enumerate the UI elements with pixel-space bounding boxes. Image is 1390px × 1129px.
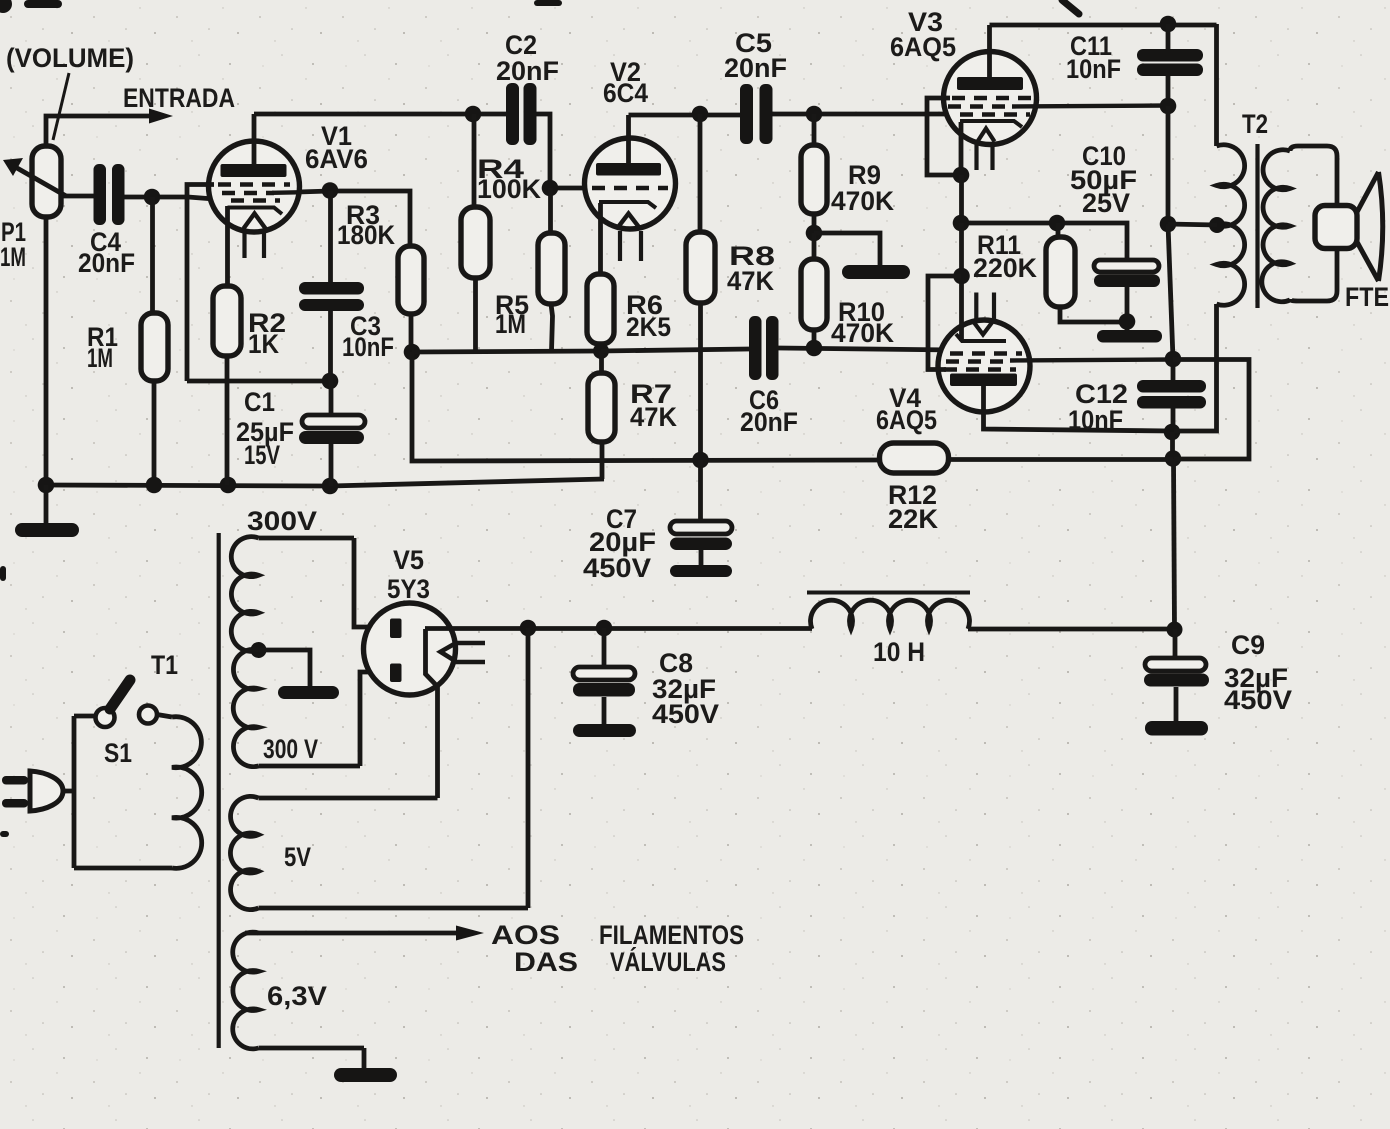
svg-text:V5: V5: [393, 545, 424, 575]
node V3 cathode junction: [953, 167, 970, 184]
resistor R3: [398, 246, 424, 352]
wire bias rail y=352: [412, 351, 601, 352]
wire C4 to V1 grid: [125, 197, 228, 200]
resistor R5: [538, 188, 565, 351]
resistor R1: [141, 197, 168, 485]
svg-text:450V: 450V: [652, 699, 719, 729]
node V4 cathode junction: [953, 268, 970, 285]
arrowhead ENTRADA: [149, 109, 173, 124]
svg-text:C9: C9: [1231, 630, 1265, 660]
transformer T1 core: [217, 533, 221, 1048]
node R9/R10 junction: [806, 225, 823, 242]
capacitor C11: [1137, 24, 1203, 106]
node R8 top: [692, 106, 709, 123]
node T2 center tap: [1209, 217, 1225, 233]
svg-text:DAS: DAS: [514, 947, 578, 977]
resistor R4: [461, 114, 490, 353]
potentiometer P1: [3, 146, 66, 217]
scan smudge top center: [534, 0, 562, 6]
wire V4 plate down and right: [984, 386, 1173, 431]
wire V5 output to choke: [425, 626, 812, 631]
node V3 screen / rail: [1160, 98, 1177, 115]
wire V2 plate rail to C5: [629, 113, 741, 118]
svg-text:1K: 1K: [248, 329, 279, 359]
svg-text:15V: 15V: [244, 440, 280, 470]
resistor R12: [880, 443, 1174, 473]
svg-text:100K: 100K: [477, 174, 541, 204]
wire V1 diode line to R3: [298, 191, 410, 246]
tube V4 6AQ5: [938, 293, 1173, 413]
node C3/C1 junction: [322, 373, 339, 390]
capacitor C10 electrolytic: [1094, 260, 1160, 330]
svg-text:10nF: 10nF: [342, 332, 394, 362]
T1 secondary 300V lower: [233, 649, 360, 766]
svg-text:6,3V: 6,3V: [267, 981, 327, 1011]
svg-text:(VOLUME): (VOLUME): [6, 43, 134, 73]
filter choke 10H: [807, 593, 1175, 630]
node bus R2: [220, 477, 237, 494]
capacitor C9 electrolytic: [1144, 629, 1209, 736]
node choke / C9 / B+: [1167, 622, 1183, 638]
node C8 top: [596, 620, 613, 637]
AC plug: [2, 771, 63, 811]
ground bar (T1 center tap): [278, 686, 339, 699]
wire rail to center tap: [1168, 224, 1217, 225]
svg-text:1M: 1M: [87, 343, 113, 373]
svg-text:VÁLVULAS: VÁLVULAS: [610, 946, 726, 977]
resistor R7: [588, 351, 615, 479]
wire screen loop: [1173, 360, 1249, 460]
wire bracket to C1/C3 junction: [187, 379, 330, 384]
svg-text:47K: 47K: [630, 402, 677, 432]
ground bar (R9/R10): [842, 265, 910, 279]
tube V3 6AQ5: [944, 25, 1169, 170]
svg-text:6AQ5: 6AQ5: [890, 32, 956, 62]
capacitor C8 electrolytic: [573, 628, 636, 737]
resistor R6: [587, 274, 614, 351]
capacitor C6: [749, 316, 779, 380]
node R4 top: [465, 106, 482, 123]
leader line from (VOLUME) to P1: [53, 73, 69, 140]
transformer T2 primary winding: [1174, 24, 1245, 431]
node V4 plate / T2 bottom: [1164, 424, 1181, 441]
node T1 center tap: [251, 642, 267, 658]
svg-text:22K: 22K: [888, 504, 939, 534]
wire V3 cathode lead: [959, 122, 964, 175]
capacitor C3: [299, 191, 364, 381]
scan smudge top: [24, 0, 62, 8]
node R11/C10 bottom junction: [1119, 313, 1136, 330]
wire cathode node down: [959, 175, 964, 223]
tube V2 6C4: [585, 115, 676, 261]
svg-text:47K: 47K: [727, 266, 774, 296]
wire V3 plate to top rail: [990, 23, 1217, 28]
svg-text:C1: C1: [244, 387, 275, 417]
speaker FTE: [1315, 172, 1383, 281]
wire ground bus: [46, 479, 604, 486]
svg-text:20nF: 20nF: [724, 53, 787, 83]
svg-text:180K: 180K: [337, 220, 395, 250]
wire V4 cathode lead up: [959, 223, 964, 341]
svg-text:300 V: 300 V: [263, 734, 318, 764]
edge mark 2: [0, 566, 6, 581]
T1 6.3V winding: [233, 932, 456, 1069]
T1 5V winding: [230, 628, 528, 910]
wire V4 beam-plate bracket: [928, 276, 961, 370]
svg-text:20nF: 20nF: [78, 248, 135, 278]
node rail / T2 center tap: [1160, 216, 1177, 233]
svg-text:450V: 450V: [1224, 685, 1292, 715]
svg-text:6AV6: 6AV6: [305, 144, 368, 174]
svg-text:25V: 25V: [1082, 188, 1130, 218]
svg-text:20nF: 20nF: [496, 56, 559, 86]
svg-text:10 H: 10 H: [873, 637, 925, 667]
node bus P1: [38, 477, 55, 494]
svg-text:450V: 450V: [583, 553, 651, 583]
wire cathode node to R11 and C10: [961, 223, 1127, 260]
svg-text:20nF: 20nF: [740, 407, 798, 437]
tube V5 5Y3: [364, 603, 486, 695]
svg-text:10nF: 10nF: [1066, 54, 1121, 84]
tube V1 6AV6: [209, 114, 300, 258]
wire P1 top to ENTRADA arrow: [46, 116, 150, 146]
resistor R11: [1046, 223, 1127, 322]
svg-text:FTE: FTE: [1345, 282, 1389, 312]
node 5V return: [520, 620, 537, 637]
scan smudge top right: [1062, 0, 1079, 14]
wire C6 to V4 grid: [779, 348, 956, 350]
svg-text:T2: T2: [1242, 109, 1268, 139]
node R3 bottom junction: [404, 344, 421, 361]
T1 secondary 300V upper: [231, 537, 354, 652]
capacitor C2: [506, 83, 537, 145]
wire upper 300V to V5 plate 1: [354, 538, 391, 627]
wire rail center section: [1168, 224, 1173, 359]
node C4/R1 junction: [144, 189, 161, 206]
svg-text:6C4: 6C4: [603, 78, 648, 108]
wire R6/R7 junction to C6: [601, 349, 749, 351]
wire center tap to ground: [259, 650, 311, 687]
svg-text:1M: 1M: [0, 242, 26, 272]
node top rail / C11: [1160, 16, 1177, 33]
wire P1 bottom to ground bus: [44, 217, 49, 485]
svg-text:2K5: 2K5: [626, 312, 671, 342]
wire C5 to V3 grid: [773, 112, 959, 117]
wire rail C12 to B+ node: [1170, 432, 1175, 459]
node cathode wire: [953, 215, 970, 232]
ground: [15, 485, 79, 537]
capacitor C7 electrolytic: [670, 460, 732, 577]
svg-text:S1: S1: [104, 738, 132, 768]
wire B+ rail down to choke node: [1174, 459, 1175, 629]
svg-text:470K: 470K: [831, 318, 894, 348]
ground bar (C10): [1097, 330, 1162, 343]
wire R3 junction down to B+ feed: [412, 352, 880, 461]
wire B+ rail upper: [1166, 106, 1171, 224]
arrowhead filaments: [456, 926, 484, 941]
svg-text:1M: 1M: [495, 309, 526, 339]
resistor R2: [213, 286, 241, 485]
svg-text:T1: T1: [151, 650, 178, 680]
svg-text:5V: 5V: [284, 842, 311, 872]
wire V1 cathode to R2: [225, 206, 230, 286]
node B+ / R12 / loop: [1165, 450, 1182, 467]
svg-text:AOS: AOS: [491, 920, 560, 950]
resistor R9: [801, 114, 827, 233]
node R11 top: [1049, 215, 1066, 232]
svg-text:FILAMENTOS: FILAMENTOS: [599, 920, 744, 950]
edge mark: [0, 831, 9, 837]
capacitor C12: [1137, 359, 1206, 432]
node bus R1: [146, 477, 163, 494]
svg-text:220K: 220K: [973, 253, 1037, 283]
switch S1: [96, 680, 158, 727]
wire R9/R10 junction to chassis ground: [814, 233, 880, 266]
node R5 top / V2 grid: [542, 180, 559, 197]
resistor R10: [801, 233, 827, 349]
node R10 bottom / V4 grid: [806, 340, 823, 357]
ground bar (6.3V): [334, 1068, 397, 1082]
wire V1 plate rail to C2: [254, 112, 506, 117]
node R9 top / V3 grid: [806, 106, 823, 123]
svg-text:300V: 300V: [247, 506, 317, 536]
wire V3 beam-plate bracket: [927, 98, 961, 175]
node R8/C7 junction: [692, 452, 709, 469]
svg-text:5Y3: 5Y3: [387, 574, 430, 604]
transformer T1 primary winding with switch loop: [63, 715, 202, 869]
node screen rail: [1165, 351, 1182, 368]
wire V2 cathode to R6: [598, 203, 603, 274]
wire lower 300V to V5 plate 2: [360, 672, 391, 766]
node V1 output: [322, 182, 339, 199]
transformer T2 core: [1255, 144, 1259, 308]
node bus C1: [322, 478, 339, 495]
capacitor C4: [94, 164, 125, 225]
wire V1 grid bracket: [187, 185, 214, 382]
capacitor C1 electrolytic: [299, 381, 365, 486]
resistor R8: [686, 114, 715, 460]
node R6/R7 junction: [593, 343, 609, 359]
scan smudge top left: [0, 0, 12, 13]
wire P1 wiper to C4: [61, 194, 94, 199]
svg-text:6AQ5: 6AQ5: [876, 405, 937, 435]
transformer T2 secondary winding: [1262, 146, 1337, 302]
capacitor C5: [740, 84, 773, 144]
svg-text:ENTRADA: ENTRADA: [123, 83, 235, 113]
svg-text:10nF: 10nF: [1068, 405, 1123, 435]
svg-text:470K: 470K: [831, 186, 894, 216]
wire C2 to V2 grid: [537, 114, 586, 188]
